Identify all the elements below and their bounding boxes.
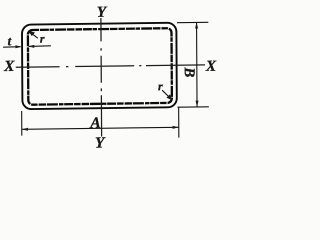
svg-text:t: t: [8, 33, 12, 48]
r top-left arrowhead: [28, 31, 35, 37]
svg-text:r: r: [158, 79, 163, 93]
svg-text:X: X: [205, 58, 217, 75]
B dimension bottom extension line: [177, 106, 208, 108]
svg-text:A: A: [89, 115, 100, 132]
svg-text:r: r: [40, 32, 45, 46]
B dimension top extension line: [177, 21, 208, 23]
B dimension line: [196, 23, 199, 107]
A dimension line: [22, 127, 178, 129]
t left arrowhead: [15, 45, 21, 48]
outer profile rounded rectangle: [22, 23, 177, 110]
B top arrowhead: [195, 22, 198, 28]
Y-Y vertical centerline: [100, 18, 103, 137]
A dimension left extension line: [21, 111, 23, 136]
wall thickness t dimension lines: [3, 46, 51, 47]
B bottom arrowhead: [196, 101, 199, 107]
corner radius r leader (top-left): [29, 32, 38, 39]
r bottom-right arrowhead: [166, 94, 172, 100]
svg-text:Y: Y: [95, 134, 106, 151]
svg-text:Y: Y: [97, 4, 108, 21]
X-X horizontal centerline: [16, 65, 205, 67]
A dimension right extension line: [178, 108, 180, 138]
svg-text:X: X: [3, 58, 15, 75]
inner radius r leader (bottom-right): [162, 90, 171, 99]
A left arrowhead: [22, 128, 28, 131]
svg-text:B: B: [181, 66, 197, 77]
A right arrowhead: [173, 126, 179, 129]
t right arrowhead: [28, 45, 34, 48]
inner profile rounded rectangle: [28, 28, 172, 105]
